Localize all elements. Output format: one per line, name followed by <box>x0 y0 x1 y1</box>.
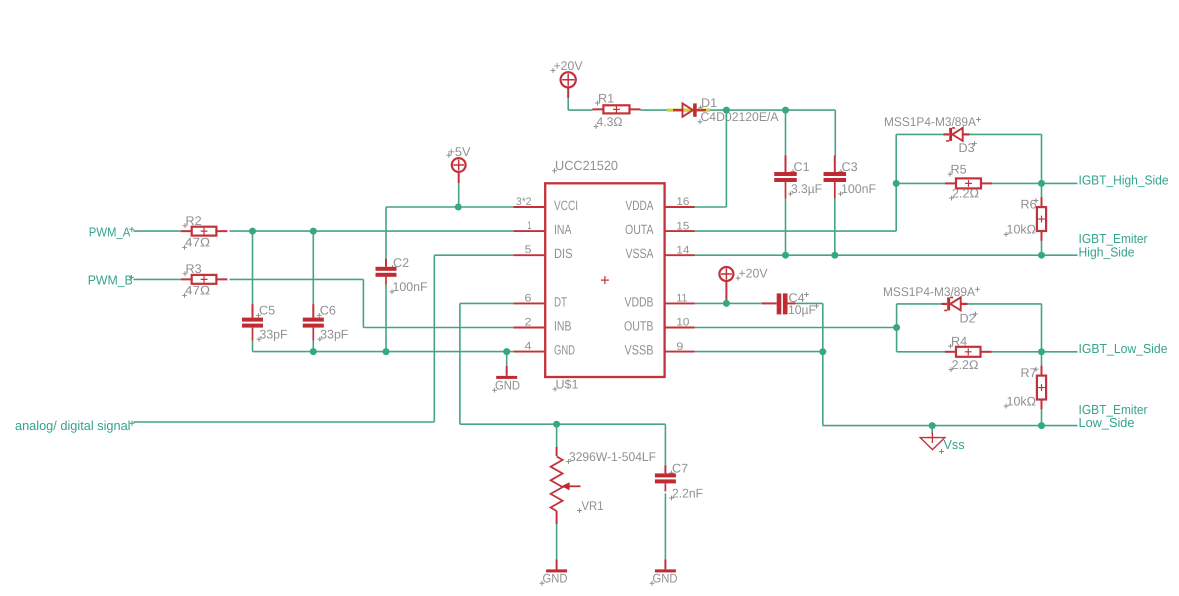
svg-text:IGBT_Low_Side: IGBT_Low_Side <box>1079 341 1168 356</box>
junction <box>553 421 560 428</box>
wire <box>1041 134 1043 183</box>
svg-text:INA: INA <box>554 222 572 237</box>
wire <box>363 327 513 329</box>
wire <box>725 110 727 207</box>
wire <box>834 198 836 255</box>
svg-text:IGBT_High_Side: IGBT_High_Side <box>1079 172 1169 187</box>
svg-text:11: 11 <box>676 293 687 305</box>
wire <box>253 351 514 353</box>
svg-text:33pF: 33pF <box>320 328 348 342</box>
wire <box>970 133 1042 135</box>
svg-text:3.3µF: 3.3µF <box>791 182 822 196</box>
pin 9 (VSSB) stub <box>665 351 695 353</box>
pin 15 (OUTA) stub <box>665 230 695 232</box>
svg-text:10kΩ: 10kΩ <box>1007 223 1037 237</box>
svg-text:6: 6 <box>525 292 532 304</box>
potentiometer VR1 <box>551 447 581 524</box>
junction <box>383 348 390 355</box>
junction <box>1038 252 1045 259</box>
junction <box>819 348 826 355</box>
svg-text:14: 14 <box>676 244 689 256</box>
svg-text:OUTB: OUTB <box>624 319 654 334</box>
junction <box>310 348 317 355</box>
capacitor C7 <box>655 465 676 491</box>
pin 10 (OUTB) stub <box>665 327 695 329</box>
wire <box>460 302 513 304</box>
svg-text:R7: R7 <box>1021 366 1037 380</box>
wire <box>252 340 254 351</box>
pin 2 (INB) stub <box>513 327 545 329</box>
junction <box>782 107 789 114</box>
wire <box>567 87 569 110</box>
wire <box>664 493 666 559</box>
pin 14 (VSSA) stub <box>665 254 695 256</box>
svg-text:C7: C7 <box>672 461 688 475</box>
svg-text:100nF: 100nF <box>841 182 876 196</box>
svg-text:OUTA: OUTA <box>625 222 654 237</box>
pin 11 (VDDB) stub <box>665 302 695 304</box>
wire <box>641 109 836 111</box>
wire <box>695 351 823 353</box>
wire <box>134 230 181 232</box>
svg-text:D3: D3 <box>959 141 975 155</box>
wire <box>385 285 387 352</box>
wire <box>506 352 508 366</box>
junction <box>723 300 730 307</box>
wire <box>252 231 254 304</box>
supply symbol Vss <box>920 432 945 449</box>
junction <box>831 252 838 259</box>
svg-text:R1: R1 <box>598 91 614 105</box>
svg-text:C1: C1 <box>794 160 810 174</box>
wire <box>1041 183 1043 197</box>
svg-text:+5V: +5V <box>448 145 472 159</box>
wire <box>896 304 898 352</box>
junction <box>1038 180 1045 187</box>
wire <box>459 303 461 424</box>
resistor R5 <box>945 178 992 188</box>
svg-text:2.2Ω: 2.2Ω <box>952 358 979 372</box>
svg-text:VCCI: VCCI <box>554 198 578 213</box>
svg-text:100nF: 100nF <box>393 280 428 294</box>
junction <box>310 228 317 235</box>
wire <box>1041 352 1043 366</box>
highlighted net segment <box>667 108 710 111</box>
supply symbol +20V (P1) <box>561 72 576 87</box>
supply symbol +20V (P3) <box>719 267 733 281</box>
svg-text:VSSB: VSSB <box>625 343 654 358</box>
wire <box>695 230 897 232</box>
svg-text:D1: D1 <box>701 96 717 110</box>
svg-text:UCC21520: UCC21520 <box>555 158 618 173</box>
svg-text:10kΩ: 10kΩ <box>1007 394 1037 408</box>
pin 4 (GND) stub <box>513 351 545 353</box>
supply symbol +5V (P2) <box>452 158 466 172</box>
wire <box>433 255 435 422</box>
diode D1 <box>673 103 706 116</box>
junction <box>893 180 900 187</box>
pin 16 (VDDA) stub <box>665 206 695 208</box>
svg-text:R6: R6 <box>1021 197 1037 211</box>
diode D2 <box>942 297 968 310</box>
svg-text:VDDB: VDDB <box>625 294 654 309</box>
wire <box>796 302 823 304</box>
svg-text:GND: GND <box>495 379 520 393</box>
diode D3 <box>944 128 970 141</box>
resistor R3 <box>181 275 228 284</box>
wire <box>134 421 435 423</box>
junction <box>503 348 510 355</box>
svg-text:5: 5 <box>525 244 532 256</box>
ground symbol GND (under VR1) <box>546 560 567 573</box>
svg-text:GND: GND <box>653 572 678 586</box>
resistor R2 <box>181 227 228 236</box>
wire <box>695 254 1078 256</box>
svg-text:INB: INB <box>554 319 572 334</box>
svg-text:PWM_A: PWM_A <box>89 224 131 239</box>
wire <box>386 206 513 208</box>
wire <box>1041 304 1043 352</box>
svg-text:R5: R5 <box>951 163 967 177</box>
ground symbol GND (under C7) <box>655 560 676 573</box>
pin 3*2 (VCCI) stub <box>513 206 545 208</box>
wire <box>897 351 946 353</box>
capacitor C4 <box>762 293 796 314</box>
wire <box>895 134 897 231</box>
wire <box>556 524 558 560</box>
svg-text:47Ω: 47Ω <box>185 236 210 250</box>
wire <box>968 303 1042 305</box>
junction <box>782 252 789 259</box>
svg-text:47Ω: 47Ω <box>185 284 210 298</box>
wire <box>312 231 314 304</box>
wire <box>823 425 1078 427</box>
wire <box>385 207 387 259</box>
junction <box>893 324 900 331</box>
capacitor C3 <box>824 156 847 199</box>
capacitor C6 <box>303 304 324 341</box>
wire <box>1041 241 1043 256</box>
wire <box>992 351 1078 353</box>
svg-text:GND: GND <box>543 572 568 586</box>
wire <box>460 423 666 425</box>
wire <box>725 302 727 305</box>
resistor R6 <box>1037 197 1046 241</box>
wire <box>362 279 364 327</box>
svg-text:4: 4 <box>525 341 532 353</box>
junction <box>249 228 256 235</box>
svg-text:15: 15 <box>676 220 689 232</box>
wire <box>664 424 666 466</box>
capacitor C2 <box>376 259 397 285</box>
wire <box>556 424 558 447</box>
wire <box>695 206 727 208</box>
resistor R1 <box>592 105 640 113</box>
resistor R4 <box>945 347 992 357</box>
wire <box>725 281 727 302</box>
ground symbol GND (under U$1) <box>496 366 517 379</box>
svg-text:4.3Ω: 4.3Ω <box>597 115 623 129</box>
svg-text:1: 1 <box>528 220 532 232</box>
capacitor C5 <box>242 304 263 341</box>
svg-text:GND: GND <box>554 343 575 358</box>
wire <box>834 110 836 156</box>
svg-text:16: 16 <box>676 196 689 208</box>
pin 6 (DT) stub <box>513 302 545 304</box>
op-amp U1 (UCC21520 gate driver body) <box>545 183 664 377</box>
junction <box>1038 422 1045 429</box>
svg-text:+20V: +20V <box>554 59 584 73</box>
svg-text:C6: C6 <box>320 304 336 318</box>
svg-text:VR1: VR1 <box>582 499 604 513</box>
svg-text:Low_Side: Low_Side <box>1079 415 1135 430</box>
wire <box>230 230 514 232</box>
svg-text:C4D02120E/A: C4D02120E/A <box>701 110 780 124</box>
wire <box>896 133 943 135</box>
svg-text:3*2: 3*2 <box>516 196 532 208</box>
svg-text:3296W-1-504LF: 3296W-1-504LF <box>569 450 656 464</box>
svg-text:DT: DT <box>554 294 567 309</box>
wire <box>312 340 314 351</box>
wire <box>785 198 787 255</box>
svg-text:C3: C3 <box>842 160 858 174</box>
wire <box>785 110 787 156</box>
svg-text:C5: C5 <box>259 304 275 318</box>
svg-text:DIS: DIS <box>554 246 573 261</box>
svg-text:PWM_B: PWM_B <box>88 272 133 287</box>
junction <box>455 204 462 211</box>
svg-text:VDDA: VDDA <box>626 198 654 213</box>
svg-text:D2: D2 <box>960 311 976 325</box>
svg-text:U$1: U$1 <box>556 377 579 391</box>
svg-text:analog/ digital signal: analog/ digital signal <box>15 418 131 433</box>
wire <box>695 302 762 304</box>
wire <box>568 109 592 111</box>
wire <box>695 327 897 329</box>
svg-text:+20V: +20V <box>739 266 769 280</box>
junction <box>723 107 730 114</box>
wire <box>897 303 942 305</box>
wire <box>230 278 364 280</box>
svg-text:MSS1P4-M3/89A: MSS1P4-M3/89A <box>883 285 976 299</box>
junction <box>1038 348 1045 355</box>
pin 5 (DIS) stub <box>513 254 545 256</box>
wire <box>434 254 513 256</box>
svg-text:High_Side: High_Side <box>1079 244 1135 259</box>
wire <box>992 182 1078 184</box>
wire <box>822 303 824 425</box>
wire <box>458 172 460 207</box>
svg-text:2.2nF: 2.2nF <box>672 486 703 500</box>
svg-text:Vss: Vss <box>944 437 965 452</box>
svg-text:10µF: 10µF <box>788 303 816 317</box>
svg-text:2: 2 <box>525 317 532 329</box>
svg-text:33pF: 33pF <box>260 328 288 342</box>
wire <box>896 182 945 184</box>
pin 1 (INA) stub <box>513 230 545 232</box>
wire <box>1041 409 1043 426</box>
capacitor C1 <box>774 156 797 199</box>
svg-text:10: 10 <box>676 317 689 329</box>
wire <box>134 278 181 280</box>
junction <box>929 422 936 429</box>
svg-text:9: 9 <box>676 341 683 353</box>
wire <box>931 426 933 435</box>
resistor R7 <box>1037 366 1046 410</box>
svg-text:2.2Ω: 2.2Ω <box>952 186 979 200</box>
svg-text:VSSA: VSSA <box>626 246 654 261</box>
